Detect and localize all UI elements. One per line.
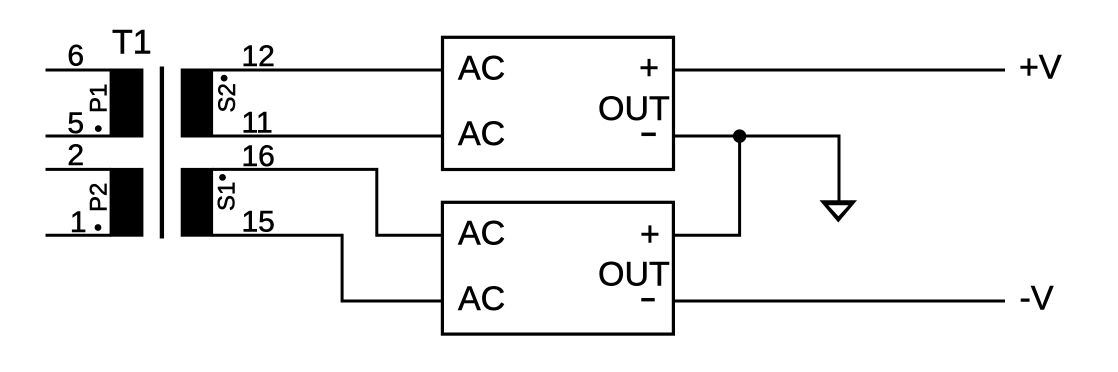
winding S2 (coil bar) <box>181 69 213 138</box>
wire junction down to bottom rectifier plus <box>674 136 740 235</box>
wire -V output <box>674 300 1006 303</box>
wire pin 6 <box>46 69 112 72</box>
wire pin 11 to top rectifier AC <box>212 135 443 138</box>
transformer core <box>160 67 164 239</box>
svg-text:12: 12 <box>242 40 275 73</box>
wire +V output <box>674 69 1006 72</box>
wire pin 5 <box>46 135 112 138</box>
phase dot P2 pin 1 <box>95 224 102 231</box>
wire pin 2 <box>46 168 112 171</box>
svg-text:-V: -V <box>1020 280 1054 318</box>
svg-text:2: 2 <box>67 139 84 172</box>
wire pin 12 to top rectifier AC <box>212 69 443 72</box>
winding P2 (coil bar) <box>110 168 144 237</box>
junction node <box>733 129 746 142</box>
rectifier U2 label - <box>641 298 654 301</box>
svg-text:AC: AC <box>458 280 505 318</box>
phase dot S2 pin 12 <box>221 75 228 82</box>
phase dot S1 pin 16 <box>219 174 226 181</box>
svg-text:P2: P2 <box>86 183 113 212</box>
svg-text:P1: P1 <box>86 84 113 113</box>
svg-text:S2: S2 <box>214 83 241 112</box>
svg-text:S1: S1 <box>214 182 241 211</box>
svg-text:6: 6 <box>67 39 84 72</box>
wire pin 16 to bottom rectifier AC <box>212 169 443 235</box>
winding S1 (coil bar) <box>181 168 213 237</box>
svg-text:16: 16 <box>242 140 275 173</box>
rectifier U1 box (top) <box>443 37 674 169</box>
svg-text:AC: AC <box>458 214 505 252</box>
svg-text:5: 5 <box>67 107 84 140</box>
svg-text:+: + <box>640 216 660 254</box>
svg-text:+V: +V <box>1019 49 1062 87</box>
svg-text:11: 11 <box>242 107 273 140</box>
rectifier U2 box (bottom) <box>442 202 673 334</box>
svg-text:OUT: OUT <box>598 90 670 128</box>
rectifier U1 label - <box>641 133 655 137</box>
svg-text:OUT: OUT <box>598 256 670 294</box>
winding P1 (coil bar) <box>110 69 144 138</box>
svg-text:AC: AC <box>458 49 505 87</box>
svg-text:+: + <box>639 49 659 87</box>
svg-text:T1: T1 <box>112 24 152 62</box>
wire top rectifier minus to ground elbow <box>674 136 840 203</box>
phase dot P1 pin 5 <box>95 125 102 132</box>
svg-text:15: 15 <box>242 206 275 239</box>
svg-text:1: 1 <box>70 206 87 239</box>
ground symbol <box>820 200 858 222</box>
wire pin 1 <box>46 234 112 237</box>
svg-text:AC: AC <box>458 115 505 153</box>
wire pin 15 to bottom rectifier AC <box>212 235 443 301</box>
